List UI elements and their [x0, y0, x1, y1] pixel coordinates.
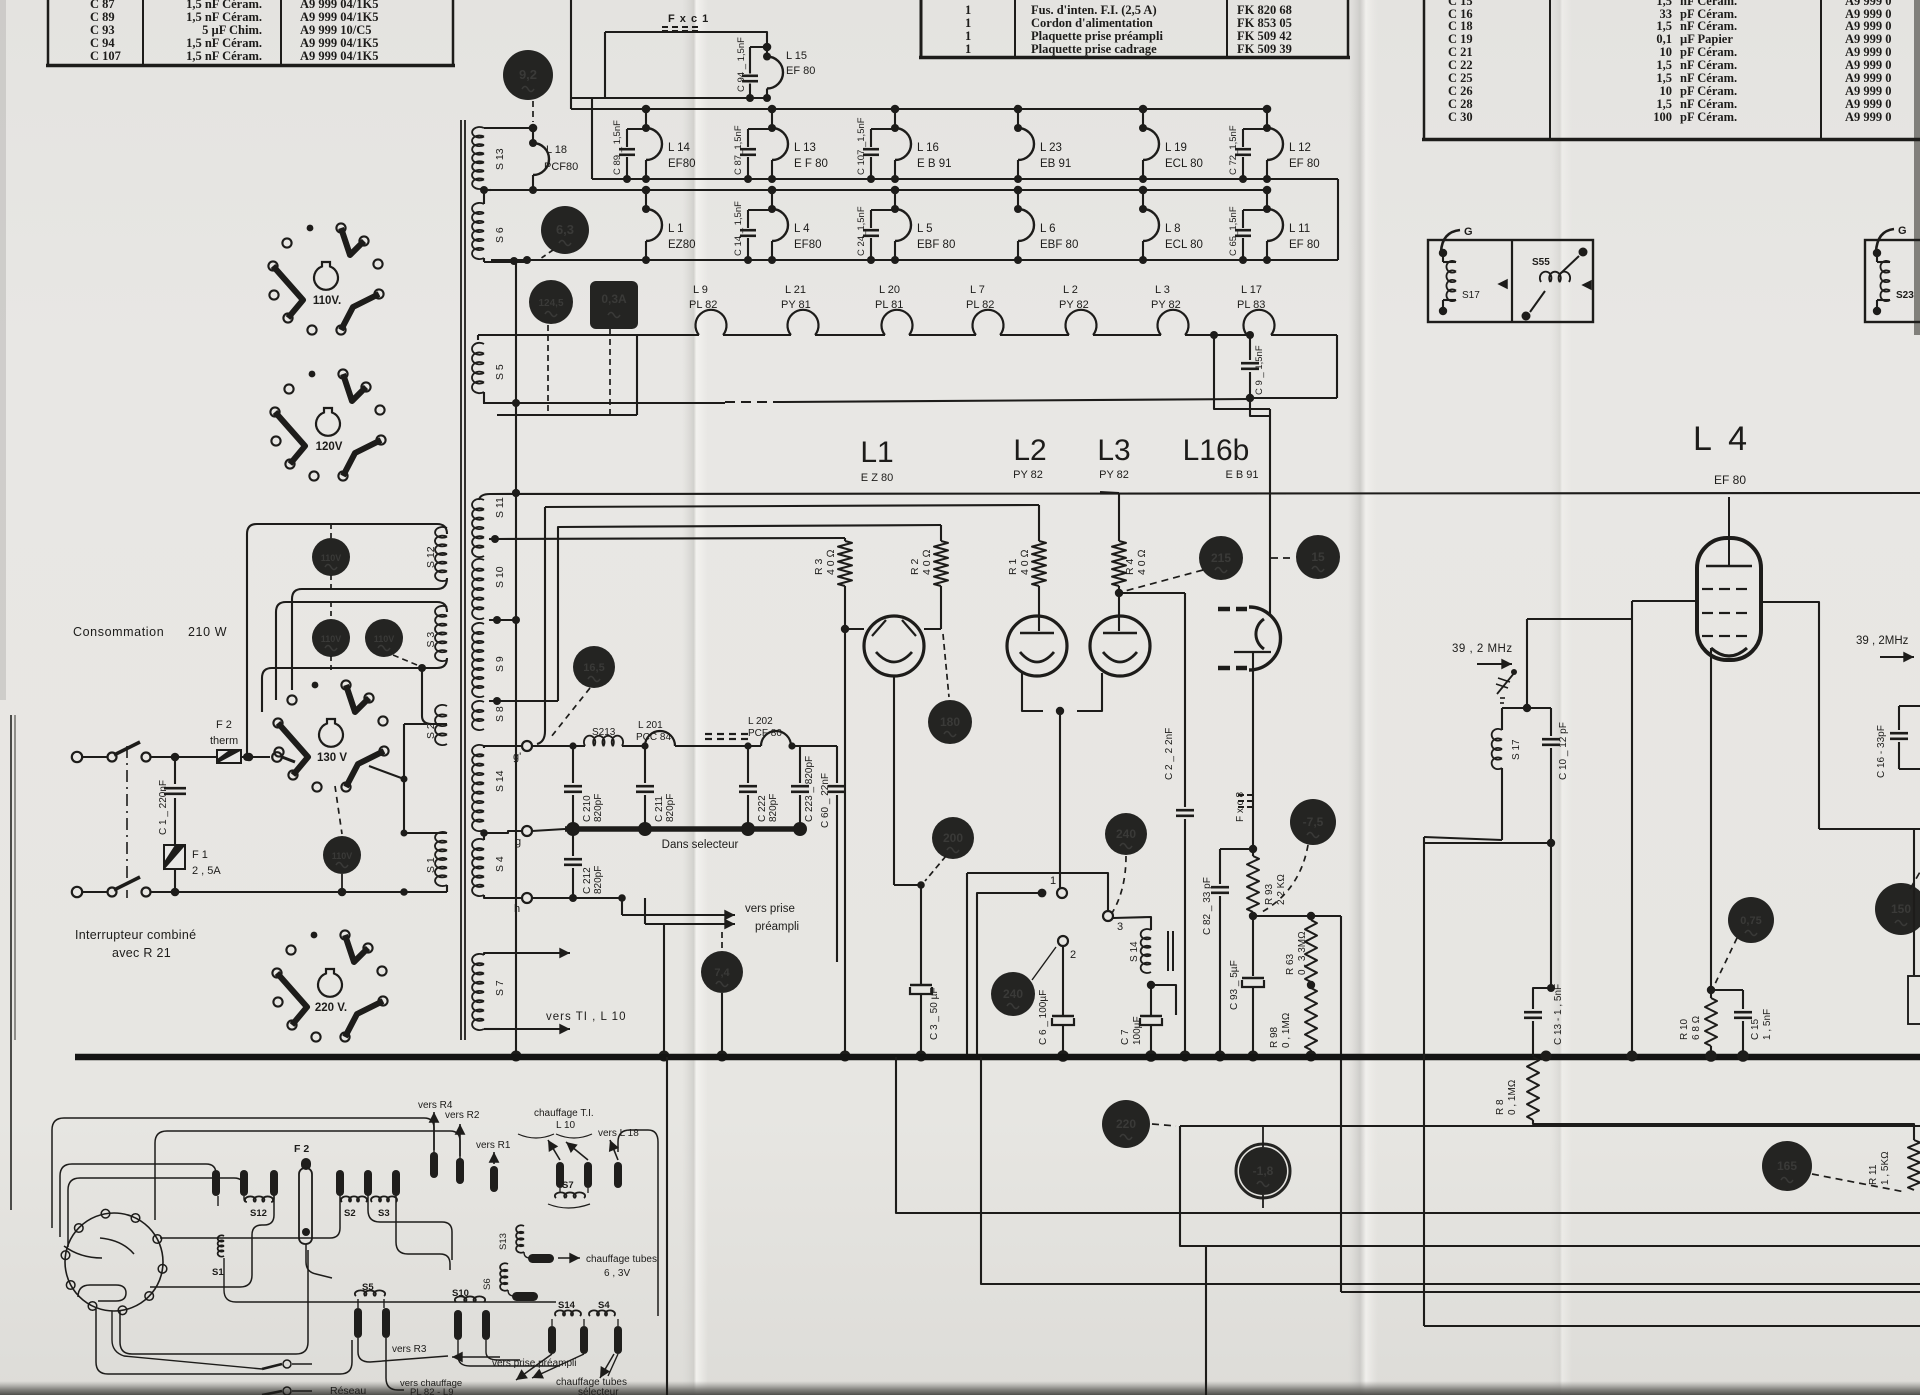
svg-text:150: 150: [1891, 902, 1911, 916]
terminal h: [522, 893, 532, 903]
svg-text:C 19: C 19: [1448, 32, 1473, 46]
svg-text:C 211: C 211: [654, 796, 665, 822]
tube L4 grids dashed: [1702, 588, 1713, 590]
svg-text:vers R1: vers R1: [476, 1140, 511, 1151]
svg-text:-7,5: -7,5: [1303, 815, 1324, 829]
switch contact 1: [1059, 887, 1061, 889]
tube L2 cathode: [1020, 652, 1054, 662]
winding S13: [472, 127, 484, 189]
capacitor C10 12pF: [1527, 707, 1551, 709]
svg-text:A9 999 0: A9 999 0: [1845, 19, 1892, 33]
svg-text:A9 999 0: A9 999 0: [1845, 32, 1892, 46]
svg-text:PCC 84: PCC 84: [636, 732, 671, 743]
badge 0,75: [1728, 897, 1774, 943]
svg-text:A9 999 0: A9 999 0: [1845, 45, 1892, 59]
svg-text:nF Céram.: nF Céram.: [1680, 97, 1737, 111]
svg-text:240: 240: [1116, 827, 1136, 841]
coil S17 IF: [1502, 707, 1527, 709]
svg-text:2 2 KΩ: 2 2 KΩ: [1276, 874, 1287, 905]
wire rail B riser to g prime: [544, 507, 546, 731]
wire S4 bottom to h: [484, 895, 521, 898]
badge 240 upper: [1105, 813, 1147, 855]
svg-text:sélecteur: sélecteur: [578, 1387, 619, 1395]
winding S1: [435, 832, 447, 886]
mains input terminals and switch: [72, 752, 82, 762]
badge 150: [1875, 883, 1920, 935]
svg-text:1,5 nF Céram.: 1,5 nF Céram.: [186, 36, 262, 50]
svg-text:C 15: C 15: [1750, 1018, 1761, 1040]
coil S3 physical: [371, 1196, 397, 1202]
svg-text:vers prise préampli: vers prise préampli: [492, 1358, 576, 1369]
svg-text:1,5: 1,5: [1656, 58, 1672, 72]
screen dashes: [705, 733, 712, 735]
resistor R3 40ohm: [844, 538, 846, 541]
wire tap loop S3 top: [276, 602, 447, 700]
svg-text:165: 165: [1777, 1159, 1797, 1173]
svg-text:820pF: 820pF: [768, 794, 779, 822]
svg-text:FK 509 42: FK 509 42: [1237, 29, 1292, 43]
resistor R2 40ohm: [940, 525, 942, 541]
wire module box left: [1424, 837, 1502, 840]
capacitor C 72: [1243, 128, 1267, 130]
wire contact1 to left: [977, 893, 1042, 1056]
capacitor C7 100uF: [1150, 985, 1152, 1015]
heater L14 EF80: [642, 105, 651, 114]
tube L3 PY82 envelope: [1090, 616, 1150, 676]
thick bus dans selecteur: [565, 826, 802, 832]
svg-text:C 210: C 210: [582, 795, 593, 822]
capacitor C3 50uF: [920, 885, 922, 984]
wire to frame bottom 5: [1180, 1125, 1920, 1127]
resistor R63 0,33Mohm: [1305, 920, 1317, 982]
svg-text:L 10: L 10: [556, 1120, 576, 1131]
svg-text:Réseau: Réseau: [330, 1385, 366, 1395]
tube L3 cathode: [1103, 652, 1137, 662]
svg-text:110V: 110V: [374, 634, 395, 644]
svg-text:pF Céram.: pF Céram.: [1680, 110, 1737, 124]
wire from L17 down to L16b: [1214, 335, 1270, 409]
wire loom right vertical: [618, 1130, 658, 1316]
wire to frame bottom 3: [1341, 1291, 1920, 1293]
svg-text:EF 80: EF 80: [786, 65, 815, 77]
wire S13/S6 junction to row2: [483, 188, 485, 204]
capacitor C 65: [1243, 209, 1267, 211]
svg-text:L 2: L 2: [1063, 284, 1078, 296]
svg-text:pF Céram.: pF Céram.: [1680, 45, 1737, 59]
svg-text:C 25: C 25: [1448, 71, 1473, 85]
heater L11 EF80: [1263, 186, 1272, 195]
winding S4: [472, 839, 484, 896]
svg-text:chauffage T.I.: chauffage T.I.: [534, 1108, 594, 1119]
wire IF input node: [1526, 619, 1528, 708]
svg-text:R 93: R 93: [1264, 883, 1275, 905]
wire PCF80 to C60: [791, 745, 837, 747]
svg-text:C 107: C 107: [90, 49, 121, 63]
heater L23 EB91: [1014, 105, 1023, 114]
svg-text:FK 509 39: FK 509 39: [1237, 42, 1292, 56]
svg-text:PCF 80: PCF 80: [748, 728, 782, 739]
badge 16,5: [573, 646, 615, 688]
svg-text:0,3A: 0,3A: [601, 292, 627, 306]
wire to frame bottom 4: [1424, 1325, 1920, 1327]
svg-text:39 , 2 MHz: 39 , 2 MHz: [1452, 643, 1513, 655]
wire vers prise preampli: [621, 898, 623, 915]
svg-text:C 18: C 18: [1448, 19, 1473, 33]
winding S11: [472, 499, 484, 557]
svg-text:G: G: [1464, 226, 1473, 238]
svg-text:pF Céram.: pF Céram.: [1680, 84, 1737, 98]
svg-text:4 0 Ω: 4 0 Ω: [1019, 549, 1031, 575]
wire L1 left: [845, 628, 864, 630]
badge 240 lower: [991, 972, 1035, 1016]
svg-text:0 , 1MΩ: 0 , 1MΩ: [1281, 1013, 1292, 1048]
svg-text:PL 82 - L9: PL 82 - L9: [410, 1387, 453, 1395]
svg-text:S 5: S 5: [494, 364, 506, 380]
svg-text:S4: S4: [598, 1300, 610, 1311]
terminal strip capsules: [212, 1170, 220, 1196]
svg-text:E Z 80: E Z 80: [861, 472, 893, 484]
svg-text:1,5: 1,5: [1656, 97, 1672, 111]
svg-text:39 , 2MHz: 39 , 2MHz: [1856, 635, 1909, 647]
svg-text:L 19: L 19: [1165, 142, 1187, 154]
svg-text:EZ80: EZ80: [668, 239, 696, 251]
socket 130V: [341, 680, 350, 689]
svg-text:Plaquette prise préampli: Plaquette prise préampli: [1031, 29, 1163, 43]
coil S2 physical: [341, 1196, 367, 1202]
svg-text:FK 853 05: FK 853 05: [1237, 16, 1292, 30]
svg-text:S 12: S 12: [425, 546, 437, 568]
svg-text:L 23: L 23: [1040, 142, 1062, 154]
svg-text:h: h: [514, 903, 520, 915]
capacitor C60 22nF: [836, 746, 838, 783]
svg-text:C 28: C 28: [1448, 97, 1473, 111]
svg-text:A9 999 0: A9 999 0: [1845, 71, 1892, 85]
svg-text:chauffage tubes: chauffage tubes: [586, 1254, 657, 1265]
wire mains bottom to S1: [175, 891, 447, 893]
wire tap S9-S8 junction to rail C riser: [493, 697, 501, 705]
winding S14: [472, 745, 484, 831]
tube L2 anode plate: [1020, 632, 1054, 634]
svg-text:EF 80: EF 80: [1714, 473, 1746, 487]
core S14: [1167, 931, 1169, 971]
badge 110V tap b: [312, 619, 350, 657]
capacitor C223 820pF: [799, 746, 801, 783]
svg-text:E B 91: E B 91: [1225, 469, 1258, 481]
wire anode supply rail A: [479, 494, 490, 500]
svg-text:S 14: S 14: [1129, 941, 1140, 962]
svg-text:L 14: L 14: [668, 142, 691, 154]
capacitor C1 220nF: [171, 753, 180, 762]
svg-text:PY 82: PY 82: [1099, 469, 1129, 481]
svg-text:S 7: S 7: [494, 980, 506, 996]
svg-text:C 26: C 26: [1448, 84, 1473, 98]
svg-text:préampli: préampli: [755, 921, 799, 933]
svg-text:S23: S23: [1896, 290, 1914, 301]
coil S1 physical: [218, 1235, 224, 1256]
resistor R1 40ohm: [1038, 505, 1040, 541]
wire S7 with arrows vers TI L10: [484, 953, 500, 955]
svg-text:2: 2: [1070, 949, 1076, 961]
svg-text:L 6: L 6: [1040, 223, 1056, 235]
svg-text:C 93 _ 5µF: C 93 _ 5µF: [1229, 960, 1240, 1010]
svg-text:EBF 80: EBF 80: [917, 239, 955, 251]
svg-text:C 82 _ 33 pF: C 82 _ 33 pF: [1202, 877, 1213, 935]
winding S12: [435, 527, 447, 581]
svg-text:S 17: S 17: [1511, 739, 1522, 760]
svg-text:C 22: C 22: [1448, 58, 1473, 72]
svg-text:Cordon d'alimentation: Cordon d'alimentation: [1031, 16, 1153, 30]
svg-text:PL 81: PL 81: [875, 299, 903, 311]
svg-text:F 2: F 2: [216, 719, 232, 731]
wire Fxc1 loop top: [605, 32, 767, 47]
svg-text:9,2: 9,2: [519, 67, 537, 82]
svg-text:C 7: C 7: [1120, 1029, 1131, 1045]
socket 120V: [338, 369, 347, 378]
terminal g: [522, 826, 532, 836]
wire L1 right: [924, 628, 941, 630]
badge 6,3: [541, 206, 589, 254]
svg-text:S12: S12: [250, 1208, 267, 1219]
svg-text:g: g: [515, 836, 521, 848]
svg-text:therm: therm: [210, 735, 238, 747]
fuse F2 therm: [175, 756, 217, 758]
wire S6 bottom to row2 bottom: [483, 258, 485, 262]
badge 110V tap c: [365, 619, 403, 657]
svg-text:PCF80: PCF80: [544, 161, 578, 173]
svg-text:1,5: 1,5: [1656, 71, 1672, 85]
resistor R11 1,5Kohm: [1908, 1140, 1920, 1190]
tube L1 EZ80 envelope: [864, 616, 924, 676]
svg-text:L 1: L 1: [668, 223, 684, 235]
svg-text:15: 15: [1311, 550, 1325, 564]
svg-text:0 , 1MΩ: 0 , 1MΩ: [1507, 1080, 1518, 1115]
capacitor C 87: [748, 128, 772, 130]
heater L2 PY82: [1065, 310, 1096, 335]
svg-text:Interrupteur combiné: Interrupteur combiné: [75, 928, 196, 942]
wire heater row1 bottom: [592, 178, 1338, 180]
svg-text:S 9: S 9: [494, 656, 506, 672]
svg-text:A9 999 0: A9 999 0: [1845, 58, 1892, 72]
svg-text:C 21: C 21: [1448, 45, 1473, 59]
badge 15: [1296, 535, 1340, 579]
coil S14 filter: [1113, 917, 1151, 930]
svg-text:nF Céram.: nF Céram.: [1680, 58, 1737, 72]
svg-text:C 65_1,5nF: C 65_1,5nF: [1228, 206, 1239, 256]
heater L18 PCF80: [484, 127, 533, 129]
svg-text:L16b: L16b: [1183, 434, 1250, 467]
wire F2 to 130V socket: [282, 757, 295, 762]
svg-text:240: 240: [1003, 987, 1023, 1001]
svg-text:C 94 _ 1,5nF: C 94 _ 1,5nF: [736, 37, 747, 92]
resistor R10 68ohm: [1710, 990, 1712, 998]
svg-text:S213: S213: [592, 727, 616, 738]
wire tap S11-S10 junction to rail D: [491, 535, 499, 543]
socket 110V: [336, 223, 345, 232]
terminal g prime: [522, 741, 532, 751]
wire R2 to badge 180 dashed: [943, 634, 949, 697]
svg-text:C 2 _ 2 2nF: C 2 _ 2 2nF: [1164, 728, 1175, 780]
wire left risers to mains: [246, 560, 248, 757]
switch contact 3: [1103, 911, 1113, 921]
svg-text:1 , 5nF: 1 , 5nF: [1762, 1009, 1773, 1040]
capacitor C210 820pF: [572, 746, 574, 760]
switch contacts reseau: [283, 1360, 291, 1368]
svg-text:L 4: L 4: [1693, 420, 1751, 458]
heater L5 EBF80: [891, 186, 900, 195]
svg-text:C 60 _ 22nF: C 60 _ 22nF: [820, 773, 831, 828]
svg-text:S 14: S 14: [494, 770, 506, 792]
svg-text:A9 999 10/C5: A9 999 10/C5: [300, 23, 372, 37]
svg-text:Consommation: Consommation: [73, 625, 164, 639]
svg-text:EB 91: EB 91: [1040, 158, 1071, 170]
tube L2 PY82 envelope: [1007, 616, 1067, 676]
capsule vers R1: [490, 1166, 498, 1192]
wire S5 top corner: [477, 335, 479, 340]
tube L1 cathode: [876, 652, 912, 662]
svg-text:0,1: 0,1: [1656, 32, 1672, 46]
svg-text:S7: S7: [562, 1180, 574, 1191]
badge 220: [1102, 1100, 1150, 1148]
switch contact 2: [1058, 936, 1068, 946]
svg-text:220: 220: [1116, 1117, 1136, 1131]
transformer core: [460, 120, 462, 1040]
svg-text:C 223 _ 820pF: C 223 _ 820pF: [804, 756, 815, 822]
svg-text:R 1: R 1: [1007, 559, 1019, 576]
svg-text:6 , 3V: 6 , 3V: [604, 1268, 630, 1279]
badge 9,2: [503, 50, 553, 100]
badge 180: [928, 700, 972, 744]
svg-text:120V: 120V: [316, 441, 343, 453]
svg-text:L 3: L 3: [1155, 284, 1170, 296]
svg-text:1: 1: [965, 29, 971, 43]
heater L9 PL82: [696, 310, 727, 335]
wire heater row1 top: [571, 108, 1267, 110]
svg-text:100µF: 100µF: [1132, 1016, 1143, 1045]
wire vertical below bus left: [666, 1057, 668, 1395]
heater L15 EF80: [763, 43, 772, 52]
svg-text:3: 3: [1117, 921, 1123, 933]
wire S3 bottom return: [262, 658, 447, 712]
winding S3: [435, 606, 447, 661]
svg-text:1: 1: [1050, 875, 1056, 887]
wire S12 bottom return: [292, 578, 447, 690]
svg-text:6,3: 6,3: [556, 222, 574, 237]
wire chain right section with C9: [1271, 334, 1337, 336]
svg-text:g': g': [513, 751, 521, 763]
svg-text:100: 100: [1653, 110, 1672, 124]
svg-text:L 202: L 202: [748, 716, 773, 727]
antenna box S17 S55: [1428, 240, 1593, 322]
tube L4 anode: [1728, 497, 1730, 566]
svg-text:EF80: EF80: [794, 239, 822, 251]
svg-text:0,75: 0,75: [1740, 915, 1761, 927]
svg-text:S3: S3: [378, 1208, 390, 1219]
svg-text:S14: S14: [558, 1300, 576, 1311]
svg-text:16,5: 16,5: [583, 662, 604, 674]
capacitor C 89: [627, 128, 646, 130]
svg-text:nF Céram.: nF Céram.: [1680, 71, 1737, 85]
svg-text:F x c 1: F x c 1: [668, 13, 709, 25]
svg-text:C 24_1,5nF: C 24_1,5nF: [856, 206, 867, 256]
wire dashed badge to S3 bottom: [393, 655, 417, 665]
heater L17 PL83: [1243, 310, 1274, 335]
tube L16b anode: [1234, 651, 1271, 653]
wire tap S10-S9 junction: [493, 616, 501, 624]
svg-text:L 11: L 11: [1289, 223, 1310, 235]
svg-text:L2: L2: [1013, 434, 1046, 467]
svg-text:0 , 3 3MΩ: 0 , 3 3MΩ: [1297, 931, 1308, 975]
heater L13 EF80: [768, 105, 777, 114]
svg-text:S13: S13: [498, 1233, 509, 1250]
svg-text:A9 999 04/1K5: A9 999 04/1K5: [300, 10, 378, 24]
svg-text:PL 82: PL 82: [689, 299, 717, 311]
triangle marker b: [1583, 281, 1591, 289]
svg-text:Dans selecteur: Dans selecteur: [662, 839, 739, 851]
svg-text:110V: 110V: [321, 553, 342, 563]
svg-text:G: G: [1898, 225, 1907, 237]
svg-text:C 72_1,5nF: C 72_1,5nF: [1228, 125, 1239, 175]
svg-text:vers R3: vers R3: [392, 1344, 427, 1355]
svg-text:L 5: L 5: [917, 223, 933, 235]
svg-text:820pF: 820pF: [593, 794, 604, 822]
svg-text:S2: S2: [344, 1208, 356, 1219]
winding S10: [472, 559, 484, 619]
svg-text:R 2: R 2: [909, 559, 921, 576]
badge 215: [1199, 536, 1243, 580]
svg-text:PY 82: PY 82: [1151, 299, 1181, 311]
svg-text:F 1: F 1: [192, 849, 208, 861]
trimmer: [1497, 672, 1515, 694]
svg-text:S 13: S 13: [494, 148, 506, 170]
wire R4 node to C2: [1119, 592, 1185, 594]
badge 110V tap a: [330, 524, 332, 540]
tube L3 anode plate: [1103, 632, 1137, 634]
antenna box S23: [1865, 240, 1920, 322]
heater L20 PL81: [881, 310, 912, 335]
svg-text:A9 999 04/1K5: A9 999 04/1K5: [300, 36, 378, 50]
svg-text:A9 999 0: A9 999 0: [1845, 110, 1892, 124]
svg-text:Plaquette prise cadrage: Plaquette prise cadrage: [1031, 42, 1157, 56]
badge -7,5: [1290, 799, 1336, 845]
heater L6 EBF80: [1014, 186, 1023, 195]
resistor R4 40ohm: [1100, 492, 1119, 493]
wire heater row2 bottom: [491, 259, 1338, 261]
heater L8 ECL80: [1139, 186, 1148, 195]
capacitor C15 1,5nF: [1711, 989, 1743, 991]
badge -1,8: [1236, 1144, 1290, 1198]
svg-text:L 201: L 201: [638, 720, 663, 731]
tube L16b EB91 envelope dashed: [1218, 607, 1230, 612]
wire h branch to bus: [663, 924, 665, 1056]
svg-text:vers prise: vers prise: [745, 903, 795, 915]
wire S2 feed: [422, 668, 447, 724]
badge 165: [1762, 1141, 1812, 1191]
heater L3 PY82: [1157, 310, 1188, 335]
svg-text:5 µF Chim.: 5 µF Chim.: [202, 23, 262, 37]
svg-text:ECL 80: ECL 80: [1165, 239, 1203, 251]
svg-text:C 107 _1,5nF: C 107 _1,5nF: [856, 117, 867, 175]
svg-text:180: 180: [940, 715, 960, 729]
wire to frame bottom 1: [896, 1057, 1920, 1213]
svg-text:vers R2: vers R2: [445, 1110, 480, 1121]
svg-text:C 94: C 94: [90, 36, 115, 50]
coil S17 antenna: [1442, 253, 1444, 262]
svg-text:S6: S6: [482, 1278, 493, 1290]
svg-text:L 12: L 12: [1289, 142, 1311, 154]
svg-text:110V.: 110V.: [313, 295, 341, 307]
svg-text:PL 82: PL 82: [966, 299, 994, 311]
heater L16 EB91: [891, 105, 900, 114]
